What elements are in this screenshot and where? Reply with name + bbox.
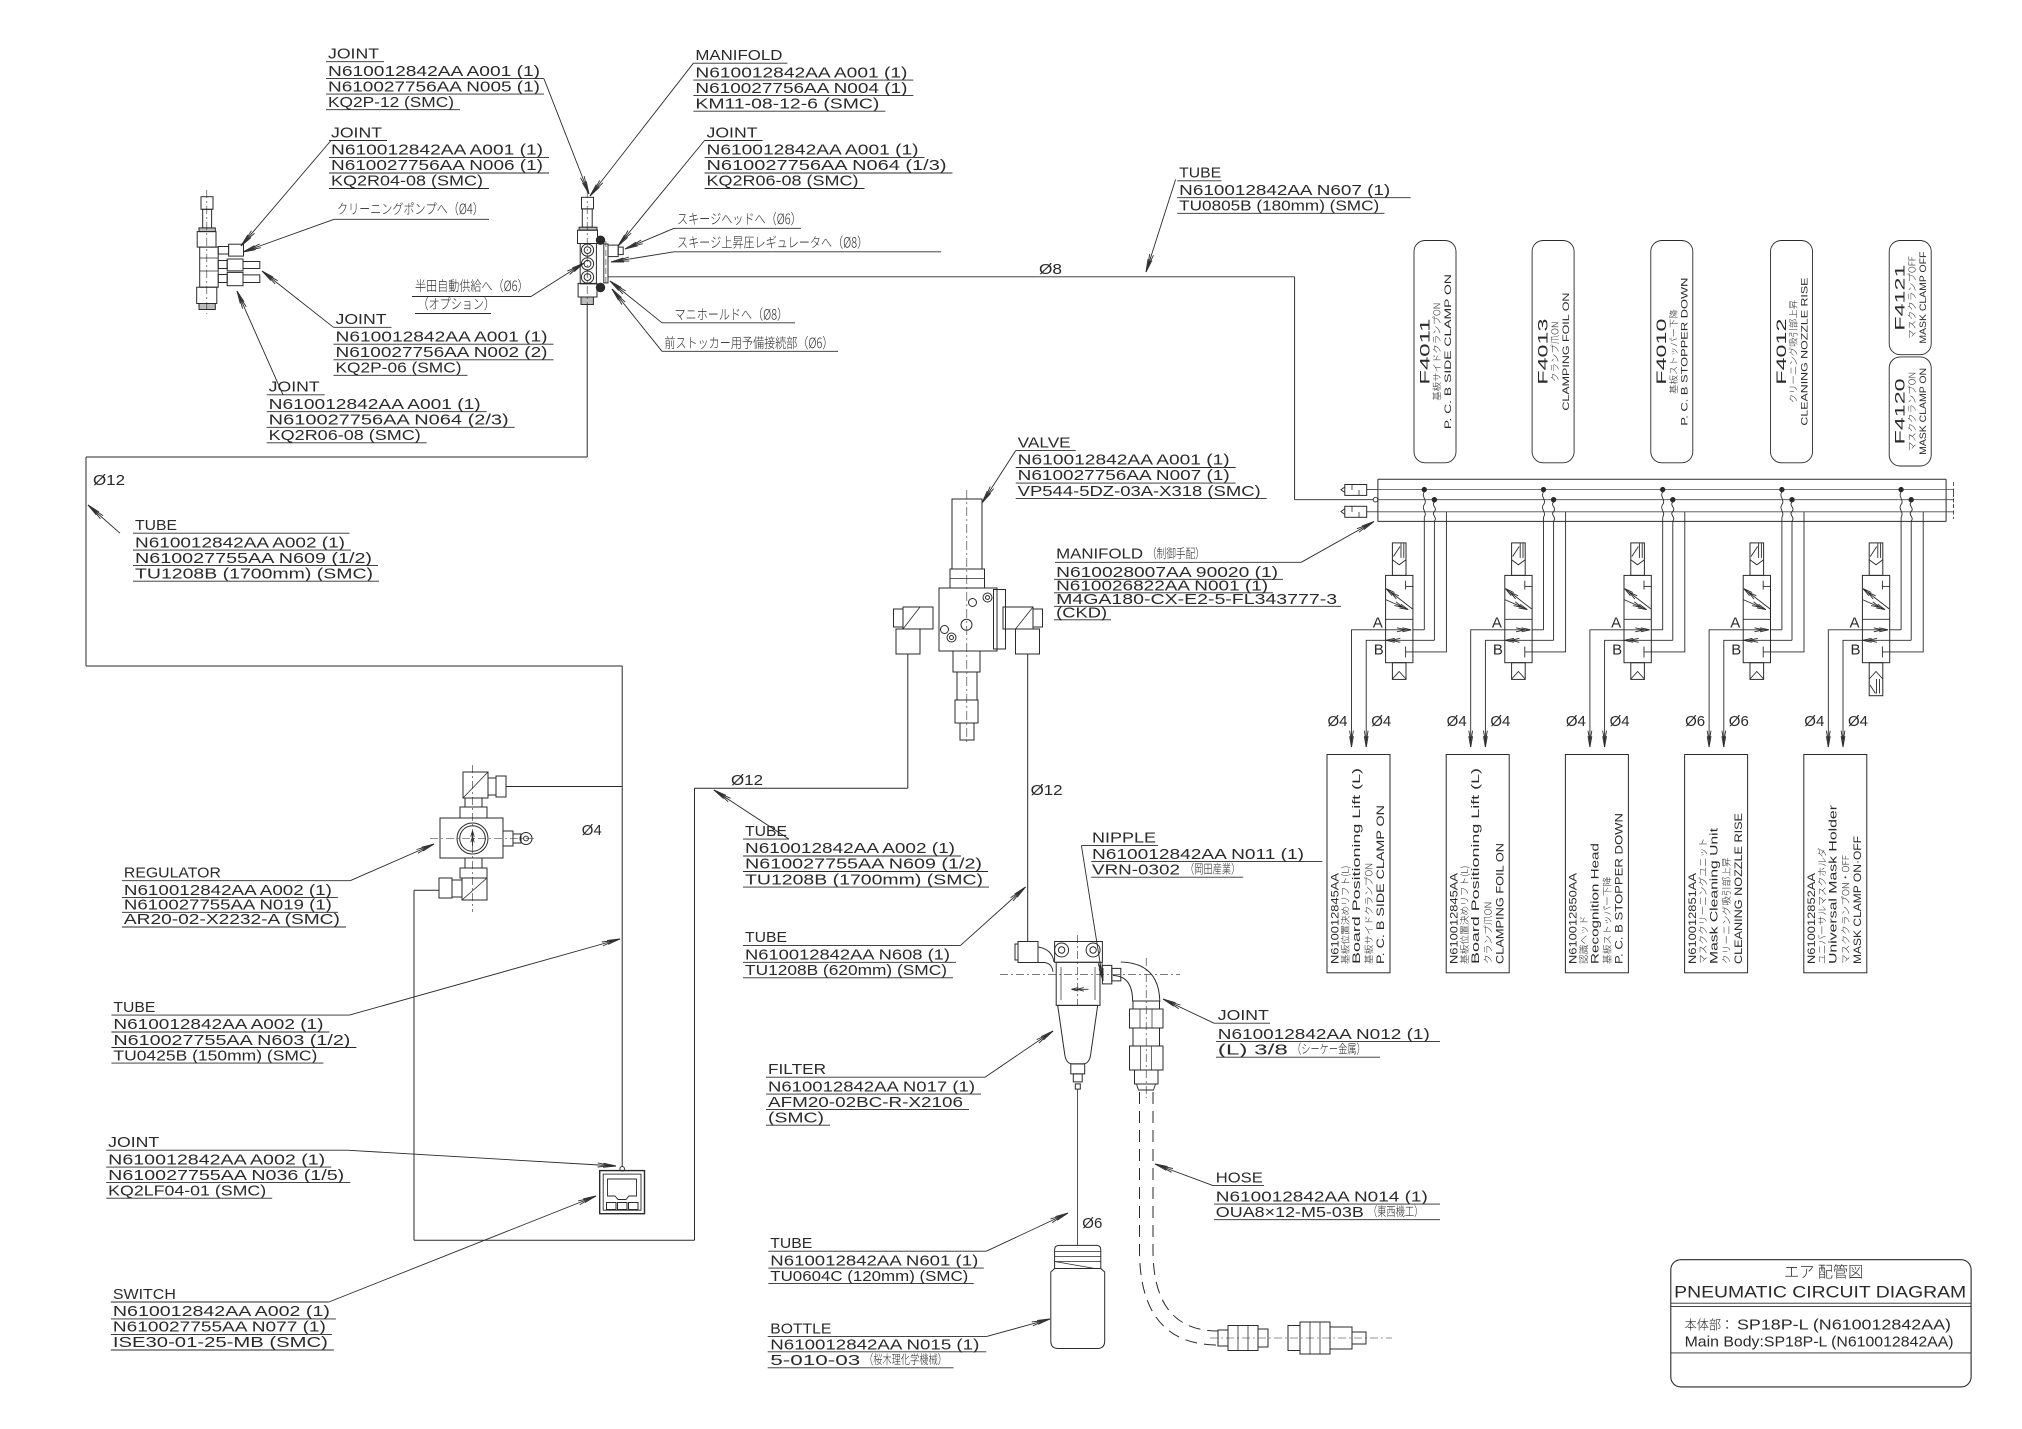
valve station 5 body <box>1862 575 1889 662</box>
svg-text:Ø4: Ø4 <box>1447 713 1467 730</box>
wire: station 1 port B <box>1366 640 1385 738</box>
main body JP row <box>1685 1318 1728 1330</box>
svg-text:ISE30-01-25-MB (SMC): ISE30-01-25-MB (SMC) <box>113 1334 328 1351</box>
manifold M1 bolts <box>596 236 604 244</box>
signal label F4012 <box>1771 241 1813 463</box>
svg-text:TU1208B (620mm) (SMC): TU1208B (620mm) (SMC) <box>745 962 947 979</box>
leader to squeegee head port <box>625 228 674 249</box>
svg-text:B: B <box>1731 642 1741 659</box>
svg-text:N610012842AA A002 (1): N610012842AA A002 (1) <box>745 840 955 857</box>
svg-text:N610012842AA A001 (1): N610012842AA A001 (1) <box>269 396 481 413</box>
valve station 1 pilot <box>1392 543 1406 576</box>
leader to hose H1 <box>1155 1164 1213 1186</box>
filter F1 drain <box>1071 1064 1085 1074</box>
leader to cleaning pump port <box>243 219 334 252</box>
junction dot station 1 line P1 <box>1422 487 1426 491</box>
svg-text:P. C. B SIDE CLAMP ON: P. C. B SIDE CLAMP ON <box>1375 805 1387 964</box>
junction dot station 3 line P2 <box>1671 498 1675 502</box>
valve station 2 bottom <box>1512 663 1526 680</box>
svg-text:KQ2R06-08 (SMC): KQ2R06-08 (SMC) <box>707 173 859 190</box>
svg-text:N610027756AA N064 (1/3): N610027756AA N064 (1/3) <box>707 157 947 174</box>
wire: station 3 port B <box>1605 640 1624 738</box>
svg-text:F4121: F4121 <box>1892 264 1908 330</box>
joint J7 elbow drawing <box>1113 962 1160 1001</box>
svg-text:N610012842AA N017 (1): N610012842AA N017 (1) <box>768 1078 975 1095</box>
svg-text:N610027756AA N007 (1): N610027756AA N007 (1) <box>1018 467 1230 484</box>
leader to O6 drain tube <box>986 1213 1068 1251</box>
junction dot station 2 line P2 <box>1551 498 1555 502</box>
svg-text:N610012850AA: N610012850AA <box>1568 872 1580 964</box>
svg-text:B: B <box>1851 642 1861 659</box>
svg-text:PNEUMATIC CIRCUIT DIAGRAM: PNEUMATIC CIRCUIT DIAGRAM <box>1674 1284 1966 1302</box>
svg-text:JOINT: JOINT <box>108 1134 159 1151</box>
wire: station 5 port B <box>1843 640 1862 738</box>
svg-text:KQ2R06-08 (SMC): KQ2R06-08 (SMC) <box>269 427 421 444</box>
svg-text:N610012842AA N607 (1): N610012842AA N607 (1) <box>1179 182 1390 199</box>
leader to switch inlet <box>347 1150 616 1166</box>
title JP air piping diagram <box>1785 1264 1862 1279</box>
junction dot station 2 line P1 <box>1541 487 1545 491</box>
front stocker spare port label <box>665 336 825 349</box>
wire: station 5 exhaust from line P3 <box>1882 512 1923 652</box>
svg-text:Ø12: Ø12 <box>93 472 125 489</box>
svg-text:N610012845AA: N610012845AA <box>1449 872 1461 964</box>
svg-text:TUBE: TUBE <box>113 999 155 1016</box>
svg-text:JOINT: JOINT <box>336 311 387 328</box>
svg-text:N610012842AA N601 (1): N610012842AA N601 (1) <box>770 1252 978 1269</box>
wire: bottom horizontal <box>414 1239 695 1241</box>
valve station 2 body <box>1505 575 1532 662</box>
wire: manifold M1 down <box>586 305 588 457</box>
valve station 5 bottom <box>1869 663 1883 696</box>
svg-text:MANIFOLD: MANIFOLD <box>695 47 782 64</box>
svg-text:VALVE: VALVE <box>1018 434 1071 451</box>
svg-text:P. C. B SIDE CLAMP ON: P. C. B SIDE CLAMP ON <box>1443 274 1454 429</box>
svg-text:Mask Cleaning Unit: Mask Cleaning Unit <box>1709 828 1721 964</box>
svg-text:JOINT: JOINT <box>269 379 320 396</box>
svg-text:Ø4: Ø4 <box>1566 713 1586 730</box>
svg-text:VRN-0302: VRN-0302 <box>1092 861 1180 878</box>
svg-text:MASK CLAMP ON·OFF: MASK CLAMP ON·OFF <box>1852 836 1864 964</box>
svg-text:TU0805B (180mm) (SMC): TU0805B (180mm) (SMC) <box>1179 198 1379 215</box>
svg-text:N610012852AA: N610012852AA <box>1806 872 1818 964</box>
wire: down to switch <box>621 787 623 1167</box>
svg-text:N610012842AA A001 (1): N610012842AA A001 (1) <box>336 328 548 345</box>
svg-text:(SMC): (SMC) <box>768 1109 824 1126</box>
svg-text:P. C. B STOPPER DOWN: P. C. B STOPPER DOWN <box>1614 813 1626 964</box>
svg-text:F4010: F4010 <box>1653 318 1669 384</box>
leader to joint J3 <box>262 271 334 327</box>
description box station 1 <box>1327 755 1390 973</box>
description box station 2 <box>1446 755 1509 973</box>
svg-text:Board Positioning Lift (L): Board Positioning Lift (L) <box>1470 768 1482 964</box>
junction dot station 5 line P1 <box>1899 487 1903 491</box>
svg-text:CLEANING NOZZLE RISE: CLEANING NOZZLE RISE <box>1799 278 1810 426</box>
manifold M1 drawing (distribution manifold) <box>582 197 594 209</box>
svg-text:Ø12: Ø12 <box>731 772 763 789</box>
wire: left vertical <box>85 457 87 666</box>
leader to manifold M1 <box>590 63 693 196</box>
svg-text:TUBE: TUBE <box>1179 165 1221 182</box>
svg-text:Ø6: Ø6 <box>1729 713 1749 730</box>
svg-text:Ø4: Ø4 <box>1848 713 1868 730</box>
svg-text:N610027755AA N609 (1/2): N610027755AA N609 (1/2) <box>745 856 982 873</box>
valve station 4 pilot <box>1750 543 1764 576</box>
leader to solder supply port <box>531 263 584 297</box>
svg-text:A: A <box>1611 615 1621 632</box>
svg-text:AR20-02-X2232-A (SMC): AR20-02-X2232-A (SMC) <box>124 911 340 928</box>
wire: station 3 exhaust from line P3 <box>1644 512 1685 652</box>
svg-text:N610012842AA A001 (1): N610012842AA A001 (1) <box>695 64 907 81</box>
leader to tube T1 / O8 line <box>1146 180 1176 273</box>
svg-text:N610012842AA A001 (1): N610012842AA A001 (1) <box>328 63 540 80</box>
wire: station 2 port A <box>1471 630 1505 738</box>
wire: regulator top elbow to branch <box>506 786 622 788</box>
svg-text:Main Body:SP18P-L (N610012842A: Main Body:SP18P-L (N610012842AA) <box>1685 1333 1954 1350</box>
svg-text:P. C. B STOPPER DOWN: P. C. B STOPPER DOWN <box>1680 278 1691 426</box>
wire: down left of regulator <box>413 890 415 1240</box>
valve V1 left elbow <box>903 607 933 629</box>
signal label F4011 <box>1414 241 1456 463</box>
svg-text:N610012842AA A001 (1): N610012842AA A001 (1) <box>331 142 543 159</box>
wire: station 3 port A <box>1590 630 1624 738</box>
pipe O8: manifold M1 to valve manifold M2 <box>608 276 1295 278</box>
svg-text:N610027756AA N064 (2/3): N610027756AA N064 (2/3) <box>269 412 509 429</box>
svg-text:N610012851AA: N610012851AA <box>1687 872 1699 964</box>
svg-text:N610012842AA A002 (1): N610012842AA A002 (1) <box>113 1016 323 1033</box>
svg-text:N610012842AA A002 (1): N610012842AA A002 (1) <box>108 1151 325 1168</box>
valve V1 right elbow <box>1003 607 1033 629</box>
svg-text:Ø4: Ø4 <box>582 822 602 839</box>
filter F1 bowl <box>1058 1005 1098 1064</box>
bus line P1 <box>1378 489 1954 491</box>
svg-text:N610012842AA N011 (1): N610012842AA N011 (1) <box>1092 846 1304 863</box>
valve station 3 body <box>1624 575 1651 662</box>
svg-text:F4012: F4012 <box>1773 318 1789 384</box>
svg-text:N610027755AA N609 (1/2): N610027755AA N609 (1/2) <box>135 550 372 567</box>
description box station 3 <box>1565 755 1628 973</box>
valve station 2 pilot <box>1512 543 1526 576</box>
junction dot station 5 line P2 <box>1909 498 1913 502</box>
signal label F4013 <box>1532 241 1574 463</box>
manifold M2 bus body <box>1378 478 1946 480</box>
svg-text:MANIFOLD: MANIFOLD <box>1056 546 1143 563</box>
svg-text:TU0604C (120mm) (SMC): TU0604C (120mm) (SMC) <box>770 1268 968 1285</box>
svg-text:Ø12: Ø12 <box>1031 782 1063 799</box>
junction dot station 4 line P2 <box>1790 498 1794 502</box>
svg-text:(CKD): (CKD) <box>1056 604 1107 621</box>
svg-text:Recognition Head: Recognition Head <box>1589 843 1601 964</box>
svg-text:Board Positioning Lift (L): Board Positioning Lift (L) <box>1351 768 1363 964</box>
svg-text:B: B <box>1612 642 1622 659</box>
wire: bottom horizontal to regulator branch <box>86 665 622 667</box>
valve V1 drawing <box>952 499 982 569</box>
svg-text:F4120: F4120 <box>1892 378 1908 444</box>
svg-text:A: A <box>1730 615 1740 632</box>
valve station 4 body <box>1743 575 1770 662</box>
wire: down to regulator top elbow <box>621 666 623 787</box>
svg-text:N610012842AA N012 (1): N610012842AA N012 (1) <box>1218 1026 1430 1043</box>
filter F1 drawing <box>1018 942 1038 963</box>
valve station 5 pilot <box>1869 543 1883 576</box>
cleaning pump port label <box>338 202 476 215</box>
wire: regulator bottom elbow left <box>414 889 439 891</box>
title block frame <box>1671 1260 1971 1387</box>
hose H1 drawing (dashed) <box>1140 1092 1219 1345</box>
leader to O4 switch line <box>350 939 621 1015</box>
leader to O12 wire <box>714 790 789 839</box>
leader to joint J1 <box>544 79 589 194</box>
svg-text:B: B <box>1493 642 1503 659</box>
svg-text:Ø4: Ø4 <box>1804 713 1824 730</box>
svg-text:N610012842AA A002 (1): N610012842AA A002 (1) <box>113 1303 330 1320</box>
svg-text:JOINT: JOINT <box>707 124 758 141</box>
svg-text:TU1208B (1700mm) (SMC): TU1208B (1700mm) (SMC) <box>745 871 983 888</box>
svg-text:NIPPLE: NIPPLE <box>1092 830 1156 847</box>
svg-text:F4013: F4013 <box>1534 318 1550 384</box>
manifold M1 right fitting <box>608 245 618 257</box>
wire: station 2 exhaust from line P3 <box>1525 512 1566 652</box>
bus left fitting 2 <box>1345 506 1367 517</box>
wire: station 4 port A <box>1709 630 1743 738</box>
manifold port label <box>676 307 781 320</box>
svg-text:MASK CLAMP OFF: MASK CLAMP OFF <box>1918 251 1929 343</box>
svg-text:Ø6: Ø6 <box>1082 1215 1102 1232</box>
svg-text:BOTTLE: BOTTLE <box>770 1321 831 1338</box>
svg-text:TU1208B (1700mm) (SMC): TU1208B (1700mm) (SMC) <box>135 565 373 582</box>
svg-text:A: A <box>1373 615 1383 632</box>
leader to joint J7 <box>1163 999 1214 1023</box>
manifold M1 flange <box>604 244 608 283</box>
bus left fitting 1 <box>1345 485 1367 496</box>
valve station 1 body <box>1386 575 1413 662</box>
svg-text:A: A <box>1492 615 1502 632</box>
leader to joint J5 <box>618 141 705 247</box>
svg-text:5-010-03: 5-010-03 <box>770 1352 860 1369</box>
leader to squeegee regulator port <box>611 252 674 262</box>
wire: valve left elbow down <box>907 654 909 788</box>
wire: valve right elbow down to filter <box>1027 654 1029 942</box>
svg-text:MASK CLAMP ON: MASK CLAMP ON <box>1918 368 1929 455</box>
svg-text:JOINT: JOINT <box>328 46 379 63</box>
solder auto supply label <box>416 279 521 292</box>
svg-text:TUBE: TUBE <box>745 929 787 946</box>
svg-text:AFM20-02BC-R-X2106: AFM20-02BC-R-X2106 <box>768 1094 963 1111</box>
leader to bottle B1 <box>986 1319 1050 1337</box>
wire: station 5 port A <box>1828 630 1862 738</box>
description box station 5 <box>1804 755 1867 973</box>
svg-text:B: B <box>1374 642 1384 659</box>
valve V1 bottom stem <box>953 651 980 672</box>
leader to switch SW1 <box>329 1196 596 1302</box>
valve station 3 bottom <box>1631 663 1645 680</box>
signal label F4121 <box>1889 241 1931 355</box>
svg-text:KQ2LF04-01 (SMC): KQ2LF04-01 (SMC) <box>108 1182 266 1199</box>
valve station 4 bottom <box>1750 663 1764 680</box>
svg-text:TUBE: TUBE <box>770 1235 812 1252</box>
svg-text:Ø4: Ø4 <box>1610 713 1630 730</box>
svg-text:N610012842AA N014 (1): N610012842AA N014 (1) <box>1216 1188 1428 1205</box>
leader to joint J4 <box>237 291 283 395</box>
leader to manifold port <box>610 281 662 323</box>
svg-text:N610012842AA N608 (1): N610012842AA N608 (1) <box>745 947 950 964</box>
svg-text:KM11-08-12-6 (SMC): KM11-08-12-6 (SMC) <box>695 95 879 112</box>
junction dot station 4 line P1 <box>1780 487 1784 491</box>
wire: station 2 port B <box>1485 640 1504 738</box>
svg-text:N610027755AA N603 (1/2): N610027755AA N603 (1/2) <box>113 1032 350 1049</box>
svg-text:OUA8×12-M5-03B: OUA8×12-M5-03B <box>1216 1204 1364 1221</box>
leader to filter F1 <box>985 1031 1053 1077</box>
junction dot station 3 line P1 <box>1661 487 1665 491</box>
switch SW1 drawing <box>600 1171 645 1214</box>
manifold M1L drawing (left supply manifold) <box>201 197 213 210</box>
svg-text:KQ2P-12 (SMC): KQ2P-12 (SMC) <box>328 94 454 111</box>
svg-text:Ø4: Ø4 <box>1490 713 1510 730</box>
svg-text:KQ2P-06 (SMC): KQ2P-06 (SMC) <box>336 360 462 377</box>
svg-text:CLEANING NOZZLE RISE: CLEANING NOZZLE RISE <box>1733 813 1745 964</box>
wire: station 4 port B <box>1724 640 1743 738</box>
svg-text:N610027755AA N036 (1/5): N610027755AA N036 (1/5) <box>108 1167 344 1184</box>
svg-text:FILTER: FILTER <box>768 1061 826 1078</box>
svg-text:CLAMPING FOIL ON: CLAMPING FOIL ON <box>1561 293 1572 411</box>
svg-text:(L) 3/8: (L) 3/8 <box>1218 1041 1288 1058</box>
svg-text:N610012842AA A001 (1): N610012842AA A001 (1) <box>1018 452 1230 469</box>
svg-text:VP544-5DZ-03A-X318 (SMC): VP544-5DZ-03A-X318 (SMC) <box>1018 483 1261 500</box>
svg-text:F4011: F4011 <box>1416 318 1432 384</box>
description box station 4 <box>1685 755 1748 973</box>
filter F1 right port <box>1102 965 1111 984</box>
signal label F4120 <box>1889 357 1931 466</box>
svg-text:JOINT: JOINT <box>1218 1007 1269 1024</box>
svg-text:Ø8: Ø8 <box>1039 261 1062 278</box>
svg-text:TUBE: TUBE <box>745 823 787 840</box>
svg-text:Ø4: Ø4 <box>1371 713 1391 730</box>
svg-text:N610012842AA A002 (1): N610012842AA A002 (1) <box>135 534 345 551</box>
bus inlet circle node <box>1373 497 1378 502</box>
svg-text:SWITCH: SWITCH <box>113 1286 176 1303</box>
squeegee head port label <box>678 212 794 225</box>
junction dot station 1 line P2 <box>1432 498 1436 502</box>
svg-text:N610027756AA N005 (1): N610027756AA N005 (1) <box>328 78 540 95</box>
svg-text:N610027756AA N004 (1): N610027756AA N004 (1) <box>695 80 907 97</box>
wire: station 4 exhaust from line P3 <box>1763 512 1804 652</box>
svg-text:A: A <box>1850 615 1860 632</box>
leader to O12 corner <box>88 505 120 533</box>
hose quick coupler drawing <box>1218 1330 1228 1346</box>
squeegee regulator port label <box>678 235 860 248</box>
leader to O12 valve-filter wire <box>961 887 1026 945</box>
wire: up to O12 line <box>694 788 696 1240</box>
valve station 1 bottom <box>1392 663 1406 680</box>
leader to joint J2 <box>241 141 331 247</box>
bottle B1 drawing <box>1055 1245 1101 1268</box>
wire: top horizontal <box>86 456 587 458</box>
svg-text:JOINT: JOINT <box>331 124 382 141</box>
svg-text:SP18P-L (N610012842AA): SP18P-L (N610012842AA) <box>1737 1317 1951 1334</box>
svg-text:Ø6: Ø6 <box>1685 713 1705 730</box>
svg-text:KQ2R04-08 (SMC): KQ2R04-08 (SMC) <box>331 173 483 190</box>
leader to valve V1 <box>982 451 1016 503</box>
signal label F4010 <box>1651 241 1693 463</box>
bus line P3 <box>1378 511 1954 513</box>
svg-text:HOSE: HOSE <box>1216 1170 1263 1187</box>
svg-text:CLAMPING FOIL ON: CLAMPING FOIL ON <box>1494 843 1506 964</box>
node: switch inlet circle <box>620 1167 625 1172</box>
valve station 3 pilot <box>1631 543 1645 576</box>
bus line P2 <box>1379 499 1954 501</box>
leader to stocker port <box>612 289 662 351</box>
svg-text:Universal Mask Holder: Universal Mask Holder <box>1828 804 1840 964</box>
svg-text:N610027756AA N002 (2): N610027756AA N002 (2) <box>336 344 548 361</box>
svg-text:TU0425B (150mm) (SMC): TU0425B (150mm) (SMC) <box>113 1047 317 1064</box>
svg-text:N610012845AA: N610012845AA <box>1329 872 1341 964</box>
svg-text:TUBE: TUBE <box>135 517 177 534</box>
svg-text:REGULATOR: REGULATOR <box>124 865 221 882</box>
svg-text:N610012842AA A001 (1): N610012842AA A001 (1) <box>707 142 919 159</box>
leader to nipple N1 <box>1081 846 1103 981</box>
wire: station 1 port A <box>1352 630 1386 738</box>
svg-text:N610027755AA N077 (1): N610027755AA N077 (1) <box>113 1319 326 1336</box>
regulator R1 drawing <box>463 772 488 798</box>
wire: station 1 exhaust from line P3 <box>1406 512 1447 652</box>
leader to manifold M2 <box>1301 522 1374 563</box>
svg-text:N610027756AA N006 (1): N610027756AA N006 (1) <box>331 157 543 174</box>
svg-text:Ø4: Ø4 <box>1327 713 1347 730</box>
leader to regulator R1 <box>350 844 434 881</box>
wire: O12 horizontal to valve <box>695 787 908 789</box>
